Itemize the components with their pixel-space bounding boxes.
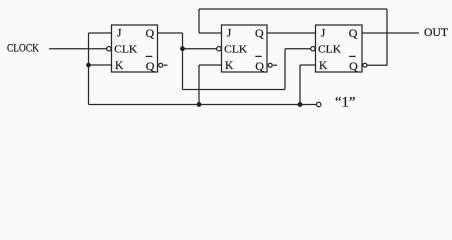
svg-text:CLK: CLK xyxy=(318,44,341,56)
wire: U3 K input xyxy=(300,64,316,66)
svg-text:“1”: “1” xyxy=(335,94,356,110)
svg-text:K: K xyxy=(225,60,234,72)
wire: U2 CLK input xyxy=(183,48,218,50)
wire: U2 J input xyxy=(199,32,222,34)
svg-text:Q: Q xyxy=(146,26,155,40)
wire: U1 K input xyxy=(89,64,112,66)
wire: Qbar3 feedback top run xyxy=(199,8,387,10)
wire: U2 K input xyxy=(199,64,222,66)
svg-text:J: J xyxy=(117,28,122,40)
wire: U3 Q output to OUT xyxy=(362,32,419,34)
wire: U2 Q output to U3 J input xyxy=(267,32,316,34)
svg-text:J: J xyxy=(321,28,326,40)
svg-text:Q: Q xyxy=(349,59,358,73)
wire: U1 J input xyxy=(89,32,112,34)
wire: U3 clock riser xyxy=(284,49,286,90)
svg-text:CLK: CLK xyxy=(114,44,137,56)
junction: Q1 to U2 CLK tap xyxy=(180,46,185,51)
svg-text:Q: Q xyxy=(349,26,358,40)
output bubble and stub on U2 Qbar xyxy=(268,63,272,67)
wire: Q1 vertical drop xyxy=(182,33,184,90)
svg-text:Q: Q xyxy=(255,59,264,73)
terminal: logic-1 source xyxy=(317,102,321,106)
flip-flop U3 body xyxy=(316,25,363,72)
junction: logic-1 bus to U2 K riser xyxy=(197,102,202,107)
wire: U3 Qbar to feedback vertical xyxy=(367,64,387,66)
clock bubble (U2 CLK, negative edge) xyxy=(217,47,221,51)
wire: logic-1 riser on left (feeds U1 J and K, joins bottom bus) xyxy=(88,33,90,105)
svg-text:CLOCK: CLOCK xyxy=(7,43,40,55)
clock bubble (U3 CLK, negative edge) xyxy=(311,47,315,51)
wire: Q1 bottom run to U3 clock riser xyxy=(183,89,286,91)
wire: feedback left vertical to U2 J xyxy=(198,9,200,33)
svg-text:K: K xyxy=(319,60,328,72)
wire: logic-1 riser to U3 K xyxy=(299,65,301,105)
junction: logic-1 riser to U1 K input xyxy=(86,63,91,68)
wire: CLOCK input to U1 CLK bubble xyxy=(49,48,107,50)
flip-flop U2 body xyxy=(222,25,268,72)
output bubble and stub on U1 Qbar xyxy=(159,63,163,67)
wire: U3 CLK input xyxy=(285,48,311,50)
flip-flop U1 body xyxy=(112,25,158,72)
clock bubble (U1 CLK, negative edge) xyxy=(107,47,111,51)
wire: logic-1 riser to U2 K xyxy=(198,65,200,105)
svg-text:Q: Q xyxy=(255,26,264,40)
svg-text:CLK: CLK xyxy=(224,44,247,56)
junction: logic-1 bus to U3 K riser xyxy=(298,102,303,107)
svg-text:K: K xyxy=(115,60,124,72)
output bubble on U3 Qbar xyxy=(363,63,367,67)
wire: U1 Q output xyxy=(158,32,183,34)
svg-text:J: J xyxy=(227,28,232,40)
svg-text:OUT: OUT xyxy=(424,27,448,39)
wire: logic-1 bottom bus xyxy=(89,104,317,106)
wire: feedback right vertical from U3 Qbar xyxy=(386,9,388,65)
svg-text:Q: Q xyxy=(146,59,155,73)
